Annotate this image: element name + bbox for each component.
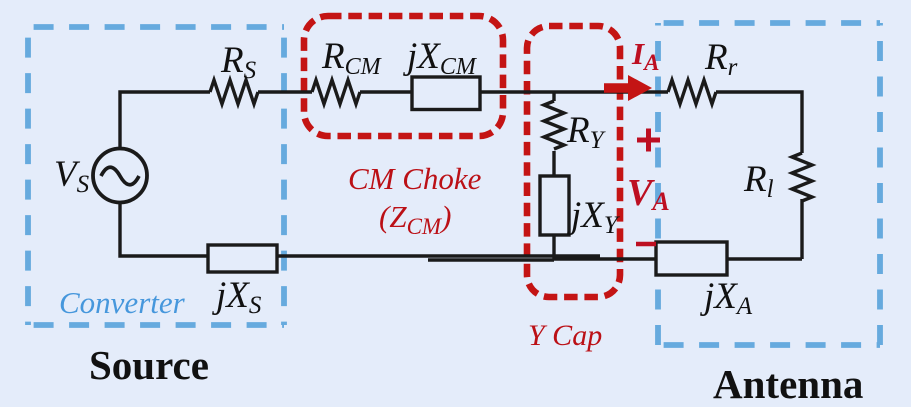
svg-text:Source: Source: [89, 342, 209, 388]
svg-text:Y Cap: Y Cap: [528, 319, 602, 352]
svg-text:Antenna: Antenna: [713, 361, 863, 407]
svg-text:CM Choke: CM Choke: [348, 161, 482, 196]
svg-text:Converter: Converter: [59, 285, 186, 320]
